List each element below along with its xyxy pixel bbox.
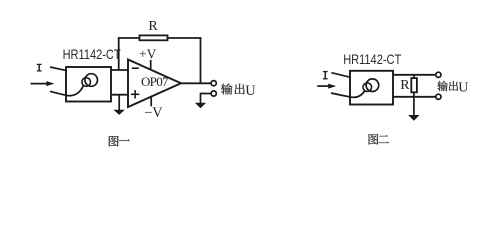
svg-text:R: R bbox=[148, 19, 158, 34]
sensor primary coil loop (right) bbox=[366, 79, 379, 92]
arrow: input current direction (left) bbox=[31, 83, 49, 85]
wire: sensor output to non-inverting input (left) bbox=[111, 94, 128, 96]
wire: feedback top left segment bbox=[118, 37, 140, 39]
current sensor U3 body (right box) bbox=[350, 71, 393, 105]
terminal: output - (left fig) bbox=[211, 91, 216, 96]
op-amp U2 OP07 triangle bbox=[128, 60, 181, 108]
sensor primary coil loop (left) bbox=[85, 74, 98, 87]
caption Figure 1 bbox=[109, 136, 119, 147]
ground (output reference, left fig) bbox=[195, 103, 206, 109]
wire: resistor bottom through lower node to ground bbox=[413, 92, 415, 118]
op-amp inverting pin mark - bbox=[132, 67, 139, 69]
ground (non-inverting input) bbox=[114, 110, 125, 115]
wire: feedback left vertical bbox=[118, 38, 120, 70]
label output U (left fig) bbox=[221, 83, 232, 94]
caption Figure 2 bbox=[369, 134, 379, 145]
resistor R1 (feedback) bbox=[140, 35, 168, 40]
svg-text:+V: +V bbox=[139, 47, 157, 62]
terminal: output + (right fig) bbox=[436, 72, 441, 77]
wire: sensor output to inverting input (left) bbox=[111, 69, 128, 71]
op-amp non-inverting pin mark + bbox=[131, 93, 139, 95]
wire: lower terminal to ground bbox=[201, 94, 212, 104]
ground (right fig) bbox=[408, 115, 419, 121]
label output U (right fig) bbox=[437, 81, 447, 91]
wire: stub from top node into resistor bbox=[413, 75, 415, 79]
wire: primary lead through loop (left) bbox=[50, 86, 83, 96]
current label I (left) bbox=[38, 64, 40, 71]
wire: primary top lead into box (left) bbox=[50, 67, 66, 70]
svg-text:HR1142-CT: HR1142-CT bbox=[63, 46, 121, 62]
current sensor U1 body (left box) bbox=[66, 67, 111, 102]
svg-text:−V: −V bbox=[144, 105, 163, 121]
svg-text:R: R bbox=[400, 78, 410, 93]
wire: sensor bottom output to terminal (right) bbox=[393, 96, 436, 98]
wire: negative supply stub bbox=[150, 96, 152, 106]
wire: primary lead through loop (right) bbox=[331, 91, 365, 97]
svg-text:OP07: OP07 bbox=[141, 74, 169, 89]
terminal: output + (left fig) bbox=[211, 81, 216, 86]
wire: feedback top right segment bbox=[168, 37, 202, 39]
wire: sensor top output to terminal (right) bbox=[393, 74, 436, 76]
terminal: output - (right fig) bbox=[436, 94, 441, 99]
svg-text:HR1142-CT: HR1142-CT bbox=[343, 51, 401, 67]
current label I (right) bbox=[324, 71, 326, 79]
arrow: input current direction (right) bbox=[317, 85, 330, 87]
wire: positive supply stub bbox=[150, 60, 152, 70]
wire: feedback right vertical down to output node bbox=[200, 38, 202, 83]
svg-text:U: U bbox=[458, 81, 468, 96]
resistor R2 (burden, right fig) bbox=[411, 78, 417, 92]
wire: op-amp output to terminal bbox=[181, 82, 211, 84]
wire: primary top lead into box (right) bbox=[331, 73, 350, 78]
wire: ground stub from non-inverting input node bbox=[118, 95, 120, 111]
svg-text:U: U bbox=[245, 83, 256, 99]
